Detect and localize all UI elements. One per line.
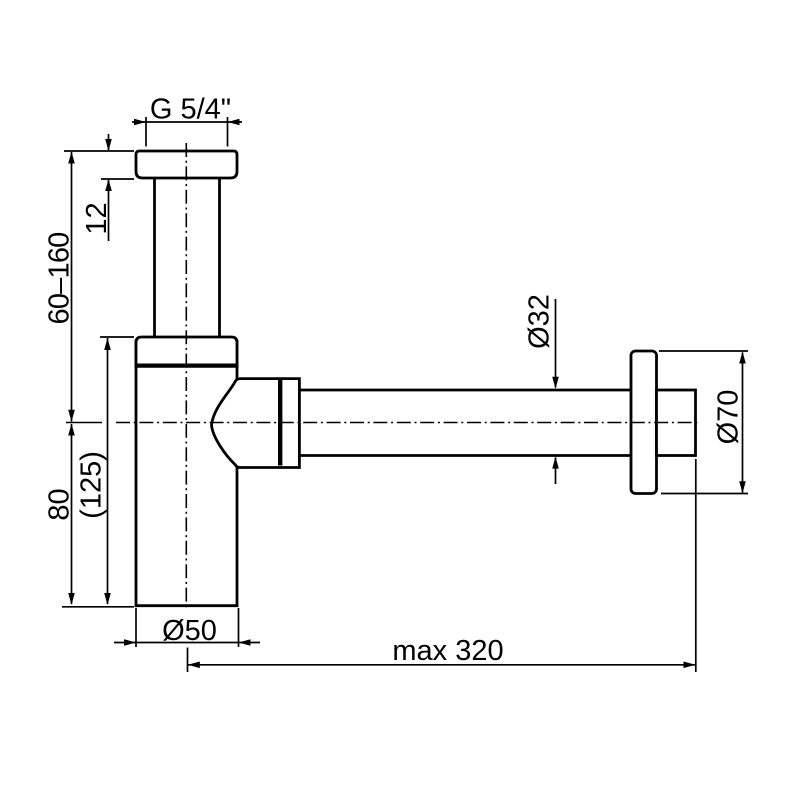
- top flange nut G5/4: [136, 151, 237, 178]
- svg-text:Ø70: Ø70: [713, 390, 745, 445]
- dimension 12 line and arrowheads: [108, 134, 110, 241]
- wall rosette flange: [631, 351, 657, 494]
- inlet pipe (vertical tube): [155, 178, 220, 340]
- dimension D70 line and arrowheads: [742, 353, 744, 493]
- dimension D50 extension lines: [136, 608, 239, 647]
- horizontal centerline: [116, 422, 701, 424]
- dimension 60-160 line and arrowheads: [71, 152, 73, 422]
- wall pipe stub: [657, 390, 696, 456]
- dimension G 5/4 extension lines: [146, 117, 228, 147]
- dimension G 5/4 arrowheads: [134, 119, 240, 126]
- cup collar (upper cap of bottle): [136, 337, 237, 368]
- extension line at outlet axis (left): [66, 422, 102, 424]
- joint band (thick seam line): [135, 364, 239, 368]
- svg-text:80: 80: [44, 488, 76, 520]
- dimension 80 line and arrowheads: [71, 424, 73, 604]
- outlet pipe (horizontal tube): [299, 390, 631, 456]
- elbow body with union nut: [212, 379, 300, 468]
- svg-text:12: 12: [81, 202, 113, 234]
- dimension (125) line and arrowheads: [107, 338, 109, 604]
- svg-text:Ø32: Ø32: [524, 294, 556, 349]
- dimension max 320 extension lines: [188, 459, 696, 672]
- svg-text:Ø50: Ø50: [162, 615, 217, 647]
- bottom extension line under cup: [62, 606, 134, 608]
- dimension max 320 line and arrowheads: [188, 664, 695, 666]
- dimension D32 leader lines and arrowheads: [555, 299, 557, 484]
- svg-text:max 320: max 320: [392, 635, 503, 667]
- vertical centerline: [185, 143, 187, 609]
- dimension (125) extension line top: [100, 336, 134, 338]
- svg-text:60–160: 60–160: [44, 233, 76, 325]
- dimension D50 line and arrowheads: [114, 642, 260, 644]
- cup body (bottle): [135, 340, 239, 606]
- compression ring (thick bar on elbow): [278, 380, 282, 466]
- svg-text:G 5/4": G 5/4": [150, 94, 231, 126]
- svg-text:(125): (125): [76, 451, 108, 519]
- dimension 12 extension lines: [64, 151, 134, 179]
- dimension D70 extension lines: [659, 351, 748, 494]
- dimension G 5/4 line: [132, 121, 242, 123]
